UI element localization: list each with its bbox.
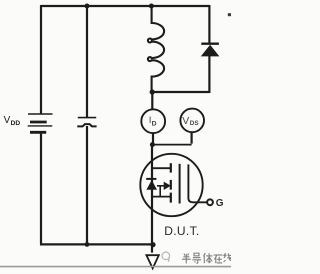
gate bar (179, 164, 181, 204)
wire inductor to ID meter (151, 92, 153, 109)
ground (146, 255, 158, 268)
node inductor bottom junction (150, 89, 155, 94)
gate lead line (188, 164, 206, 202)
wire ID meter to drain node (152, 133, 154, 144)
body diode cathode bar (146, 178, 156, 180)
node bottom source junction (150, 242, 155, 247)
capacitor C (77, 118, 96, 127)
wire capacitor branch bottom (86, 126, 88, 244)
wire left branch bottom (40, 134, 42, 245)
stray mark right edge (228, 13, 231, 16)
battery VDD (28, 114, 53, 132)
watermark text xian (wire) (224, 253, 232, 262)
inductor L (148, 7, 164, 92)
wire drain node to ground (151, 145, 153, 253)
body-source stub (159, 186, 161, 197)
node drain junction (150, 142, 155, 147)
svg-text:D.U.T.: D.U.T. (164, 224, 199, 238)
wire right branch lower (208, 56, 210, 93)
diode D1 cathode bar (201, 43, 219, 45)
watermark text dao (guide) (193, 253, 202, 263)
source lead stub (152, 196, 171, 198)
watermark text ban (half) (182, 254, 191, 264)
svg-text:D: D (152, 120, 157, 127)
svg-text:V: V (182, 115, 189, 127)
drain lead stub (152, 167, 171, 169)
meter ID circle (141, 109, 165, 133)
svg-text:DS: DS (190, 120, 199, 127)
wire bottom rail (40, 243, 153, 245)
wire right branch upper (208, 5, 210, 43)
wire capacitor branch top (86, 5, 88, 117)
body diode triangle (146, 180, 157, 190)
channel bar dashes (170, 163, 172, 202)
node top capacitor junction (85, 4, 90, 9)
node bottom capacitor junction (85, 242, 90, 247)
svg-text:V: V (4, 115, 11, 126)
wire left branch top (40, 5, 42, 114)
meter VDS circle (180, 109, 204, 133)
node top inductor junction (149, 4, 154, 9)
transistor DUT envelope circle (140, 154, 202, 216)
diode D1 anode triangle (201, 45, 220, 57)
svg-text:G: G (216, 198, 224, 209)
body arrow (157, 185, 165, 187)
watermark text ti (body) (204, 253, 213, 263)
wire VDS to drain node connector (152, 144, 191, 146)
watermark logo swirl (162, 252, 170, 262)
wire loop bottom rail (152, 91, 209, 93)
svg-text:DD: DD (11, 120, 21, 127)
watermark rule (0, 266, 231, 268)
wire VDS meter drop (191, 132, 193, 144)
watermark text zai (at) (214, 255, 223, 263)
wire top rail (41, 5, 209, 7)
gate terminal circle (207, 199, 213, 205)
